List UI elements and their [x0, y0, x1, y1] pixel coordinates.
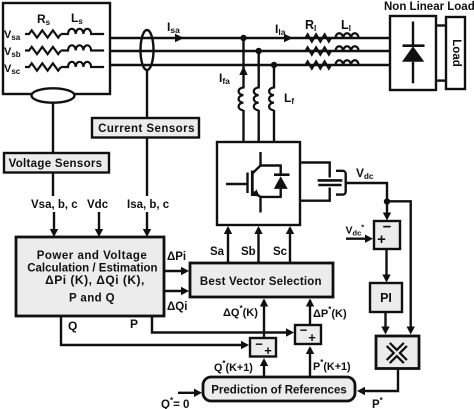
rectifier box: [390, 16, 436, 90]
arrow Vsa b c into power box: [50, 212, 58, 237]
svg-text:P*: P*: [372, 396, 384, 409]
label P: [130, 317, 138, 331]
svg-text:Vdc: Vdc: [356, 166, 374, 181]
IGBT Q1: [226, 152, 282, 213]
arrow Isa: [175, 34, 184, 42]
svg-text:Lf: Lf: [284, 91, 294, 106]
node phase c filter tap: [271, 62, 277, 68]
arrow Q*=0 into prediction box: [178, 389, 202, 397]
svg-text:+: +: [308, 330, 316, 345]
inductor Ls phase a: [61, 29, 104, 34]
svg-text:P*(K+1): P*(K+1): [313, 358, 351, 373]
gate line Sc: [286, 226, 294, 263]
svg-text:Isa, b, c: Isa, b, c: [127, 199, 170, 211]
inductor Lf phase a: [239, 88, 244, 111]
svg-text:Vdc: Vdc: [87, 199, 109, 211]
wire current sensor drop: [146, 70, 148, 118]
svg-text:PI: PI: [380, 291, 392, 305]
svg-text:Voltage Sensors: Voltage Sensors: [9, 158, 103, 170]
label dPi: [167, 251, 186, 263]
svg-text:Sc: Sc: [273, 246, 288, 258]
wire P*(K+1) into P summer: [306, 346, 314, 377]
svg-text:ΔQi: ΔQi: [167, 301, 187, 313]
diode D1: [402, 22, 425, 84]
label dQi: [167, 301, 187, 313]
freewheel diode D2: [274, 166, 290, 197]
wire dQi with arrow: [164, 287, 189, 295]
resistor Rl phase a: [306, 34, 331, 41]
label Isa b c: [127, 199, 170, 211]
multiplier block: [376, 336, 419, 369]
wire filter branch c: [273, 65, 275, 143]
resistor Rl phase b: [306, 47, 331, 54]
label Sa: [210, 246, 225, 258]
inductor Ll phase a: [335, 33, 358, 38]
svg-text:Non Linear Load: Non Linear Load: [384, 1, 474, 13]
arrow Vdc ref into summer: [346, 235, 373, 243]
inductor Ls phase c: [61, 62, 104, 67]
svg-text:Sb: Sb: [241, 246, 256, 258]
inductor Lf phase b: [254, 88, 259, 111]
label Sc: [273, 246, 288, 258]
capacitor Cdc plate 1: [318, 179, 343, 182]
wire dPi with arrow: [164, 267, 189, 275]
svg-text:+: +: [264, 343, 272, 358]
svg-text:Vdc*: Vdc*: [346, 223, 365, 238]
label Lf: [284, 91, 294, 106]
current sensors box: [92, 118, 199, 138]
svg-text:Prediction of References: Prediction of References: [211, 385, 346, 397]
best vector selection box: [190, 263, 333, 297]
svg-text:+: +: [377, 231, 386, 248]
wire Vdc to multiplier right branch: [387, 201, 411, 331]
label Rl: [305, 18, 316, 33]
svg-text:Vsa, b, c: Vsa, b, c: [31, 199, 78, 211]
node phase a filter tap: [240, 35, 246, 41]
wire voltage sensor drop: [52, 103, 54, 154]
inductor Lf phase c: [269, 88, 274, 111]
wire voltage sensors to label: [52, 173, 54, 197]
label dQ*(K): [223, 304, 258, 319]
Q summing junction box: [250, 337, 276, 359]
svg-text:ΔPi (K), ΔQi (K),: ΔPi (K), ΔQi (K),: [45, 273, 145, 287]
wire current sensors to label: [146, 138, 148, 197]
label Rs: [37, 12, 51, 27]
svg-text:Ll: Ll: [341, 18, 351, 33]
svg-text:ΔQ*(K): ΔQ*(K): [223, 304, 258, 319]
label Isa: [167, 20, 180, 35]
wire rectifier to load bottom: [436, 79, 446, 81]
label P*(K+1): [313, 358, 351, 373]
svg-text:Rl: Rl: [305, 18, 316, 33]
dc link tab: [300, 163, 330, 201]
label Vdc node: [356, 166, 374, 181]
voltage sensors box: [4, 153, 109, 173]
svg-text:ΔP*(K): ΔP*(K): [313, 305, 347, 320]
arrow Vdc into power box: [95, 212, 103, 237]
label Ifa: [219, 71, 230, 86]
label Ls: [71, 11, 83, 26]
voltage sensor pickup ellipse: [32, 88, 75, 102]
node phase b filter tap: [256, 48, 262, 54]
label Ila: [275, 22, 286, 37]
wire Q*(K+1) into Q summer: [260, 358, 268, 377]
wire Vdc horizontal: [346, 183, 387, 218]
current sensor pickup ellipse: [141, 30, 154, 70]
dc terminal bracket: [336, 171, 346, 195]
wire multiplier output P*: [357, 369, 398, 396]
resistor Rl phase c: [306, 61, 331, 68]
svg-text:Load: Load: [450, 39, 462, 66]
gate line Sa: [224, 226, 232, 263]
wire dQ* to best vector selection: [260, 299, 268, 339]
gate line Sb: [254, 226, 262, 263]
svg-text:Ifa: Ifa: [219, 71, 230, 86]
resistor Rs phase b: [25, 47, 61, 54]
resistor Rs phase a: [25, 30, 61, 37]
prediction of references box: [203, 377, 355, 401]
inductor Ls phase b: [61, 45, 104, 50]
Vdc summing junction box: [374, 219, 400, 250]
wire P from power box: [152, 316, 294, 337]
wire rectifier to load top: [436, 24, 446, 26]
svg-text:Q*= 0: Q*= 0: [161, 396, 189, 409]
capacitor Cdc plate 2: [318, 184, 341, 187]
label Vsc: [4, 63, 21, 76]
label Vsa: [4, 29, 21, 42]
P summing junction box: [295, 323, 321, 346]
wire phase a main line: [110, 37, 390, 39]
arrow Ila: [284, 34, 293, 42]
svg-text:Power and Voltage: Power and Voltage: [37, 250, 148, 262]
inductor Ll phase c: [335, 60, 358, 65]
svg-text:Current Sensors: Current Sensors: [98, 123, 195, 135]
wire Q from power box: [61, 316, 249, 349]
source box: [3, 3, 110, 94]
label Vdc input: [87, 199, 109, 211]
label Q*=0: [161, 396, 189, 409]
inverter box: [217, 142, 300, 225]
arrow Vdc into summer: [383, 213, 391, 221]
svg-text:P and Q: P and Q: [69, 293, 115, 305]
wire PI to multiplier: [381, 312, 389, 335]
svg-text:P: P: [130, 317, 138, 331]
arrow Isa b c into power box: [143, 212, 151, 237]
svg-text:ΔPi: ΔPi: [167, 251, 186, 263]
label Non Linear Load: [384, 1, 474, 13]
arrow right branch into multiplier: [407, 327, 415, 335]
wire filter branch b: [258, 51, 260, 143]
svg-text:Q: Q: [68, 319, 77, 333]
wire summer to PI: [382, 249, 390, 283]
label Vsb: [4, 46, 21, 59]
svg-text:Best Vector Selection: Best Vector Selection: [200, 276, 322, 288]
wire phase c main line: [110, 64, 390, 66]
label Sb: [241, 246, 256, 258]
resistor Rs phase c: [25, 63, 61, 70]
inductor Ll phase b: [335, 46, 358, 51]
wire phase b main line: [110, 50, 390, 52]
label P*: [372, 396, 384, 409]
label Vsa b c: [31, 199, 78, 211]
svg-text:Q*(K+1): Q*(K+1): [214, 359, 253, 374]
label Q*(K+1): [214, 359, 253, 374]
label Q: [68, 319, 77, 333]
svg-text:Isa: Isa: [167, 20, 180, 35]
PI controller box: [370, 283, 402, 312]
arrow Ifa up: [239, 66, 247, 75]
wire dP* to best vector selection: [306, 299, 314, 326]
svg-text:−: −: [255, 337, 263, 352]
svg-text:−: −: [300, 323, 308, 338]
wire filter branch a: [242, 38, 244, 143]
label dP*(K): [313, 305, 347, 320]
label Vdc reference: [346, 223, 365, 238]
power and voltage calculation box: [16, 237, 164, 316]
node Vdc junction: [384, 198, 390, 204]
label Ll: [341, 18, 351, 33]
load box: [446, 17, 465, 89]
svg-text:Sa: Sa: [210, 246, 225, 258]
